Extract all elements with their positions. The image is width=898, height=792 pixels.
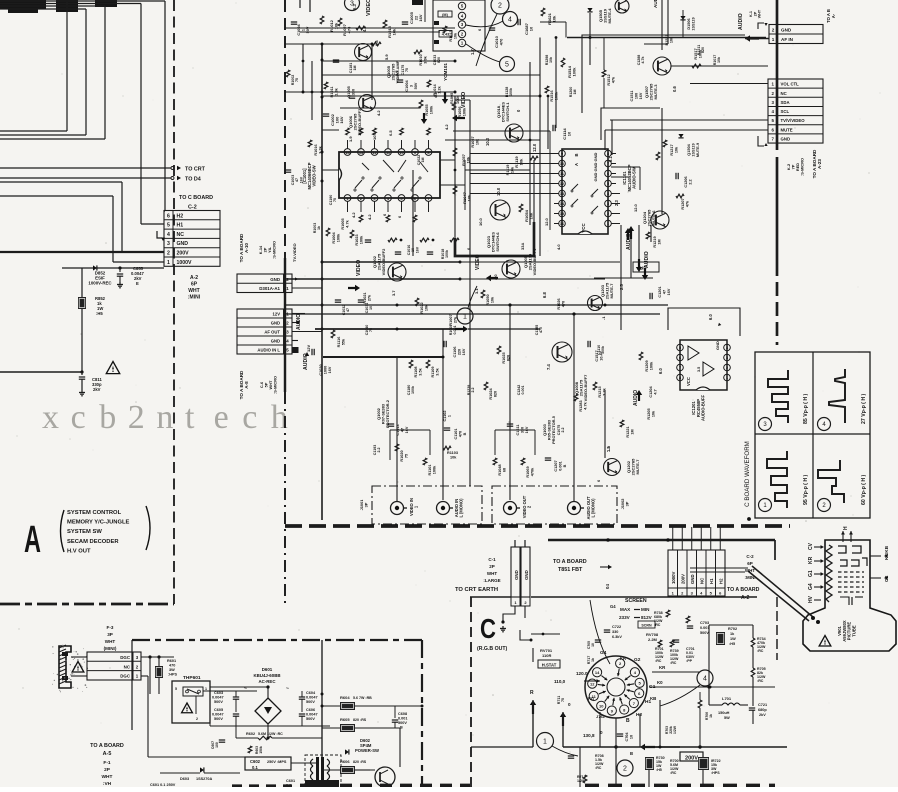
svg-text:A: A bbox=[574, 163, 579, 166]
svg-text:VIDEO: VIDEO bbox=[356, 260, 362, 276]
svg-text:R1014: R1014 bbox=[433, 84, 437, 96]
svg-text:SYSTEM SW: SYSTEM SW bbox=[67, 529, 102, 535]
svg-text:R1283: R1283 bbox=[579, 400, 583, 411]
svg-text:C608: C608 bbox=[398, 712, 407, 716]
svg-text:10k: 10k bbox=[674, 146, 678, 153]
svg-text::RC: :RC bbox=[595, 766, 602, 770]
svg-text:C1102: C1102 bbox=[443, 411, 447, 422]
svg-text:3.5k: 3.5k bbox=[435, 367, 439, 375]
svg-text:1SS270A: 1SS270A bbox=[196, 777, 213, 781]
svg-text:2: 2 bbox=[167, 251, 170, 257]
svg-text:1.9: 1.9 bbox=[348, 136, 353, 142]
svg-text:10: 10 bbox=[599, 704, 604, 709]
svg-text:R1217: R1217 bbox=[670, 144, 674, 155]
svg-text:AF OUT: AF OUT bbox=[264, 330, 280, 335]
svg-text:6P: 6P bbox=[747, 561, 753, 566]
svg-text:0: 0 bbox=[568, 702, 571, 707]
svg-text:1W: 1W bbox=[730, 637, 736, 641]
svg-text:(M): (M) bbox=[442, 13, 448, 17]
svg-text:R1023: R1023 bbox=[355, 234, 359, 245]
svg-text:47: 47 bbox=[346, 308, 350, 312]
svg-text:470: 470 bbox=[458, 431, 462, 437]
svg-text:47: 47 bbox=[662, 290, 666, 294]
svg-text:R606: R606 bbox=[340, 759, 350, 764]
svg-text:4.2: 4.2 bbox=[351, 212, 356, 218]
svg-text:C1106: C1106 bbox=[453, 347, 457, 358]
svg-text:2: 2 bbox=[498, 3, 502, 10]
svg-text:R1215: R1215 bbox=[598, 386, 602, 397]
svg-text:(MINI): (MINI) bbox=[104, 646, 117, 651]
svg-text:C606: C606 bbox=[306, 708, 315, 712]
svg-text:10k: 10k bbox=[490, 296, 494, 303]
svg-text:GND: GND bbox=[271, 339, 280, 344]
svg-text:C-1: C-1 bbox=[488, 557, 496, 562]
svg-text:50V: 50V bbox=[306, 26, 310, 33]
svg-text::RC: :RC bbox=[757, 679, 764, 683]
svg-text:680p: 680p bbox=[758, 708, 767, 712]
svg-text:n: n bbox=[156, 399, 173, 436]
svg-text:5.6M 1/2W :RC: 5.6M 1/2W :RC bbox=[258, 732, 283, 736]
svg-text:H.STAT: H.STAT bbox=[542, 662, 557, 667]
svg-text:AUDIO: AUDIO bbox=[644, 251, 650, 268]
svg-text:POWER-SW: POWER-SW bbox=[355, 748, 379, 753]
svg-text:VCC: VCC bbox=[686, 377, 691, 386]
svg-text:60 Vp-p ( H ): 60 Vp-p ( H ) bbox=[861, 474, 867, 505]
svg-text:2.2: 2.2 bbox=[377, 448, 381, 453]
svg-text:PROTECTOR-5: PROTECTOR-5 bbox=[551, 415, 556, 444]
svg-text:1k: 1k bbox=[709, 714, 713, 718]
svg-text:100k: 100k bbox=[336, 233, 340, 242]
svg-text:5: 5 bbox=[167, 223, 170, 229]
svg-text:6.0: 6.0 bbox=[708, 314, 713, 320]
svg-text:7: 7 bbox=[427, 196, 429, 201]
svg-text:470: 470 bbox=[539, 327, 543, 333]
svg-text:WHT: WHT bbox=[745, 568, 755, 573]
svg-text:R1004: R1004 bbox=[332, 232, 336, 244]
svg-text:KR: KR bbox=[620, 656, 626, 661]
svg-text:GND: GND bbox=[593, 152, 598, 161]
svg-text:J761: J761 bbox=[596, 714, 606, 719]
svg-text:C1204: C1204 bbox=[649, 386, 653, 398]
svg-text:~: ~ bbox=[286, 686, 289, 692]
svg-text:GND: GND bbox=[781, 28, 792, 33]
svg-text:10k: 10k bbox=[475, 138, 479, 145]
svg-text:0.0047: 0.0047 bbox=[306, 713, 318, 717]
svg-text:R1048: R1048 bbox=[498, 464, 502, 475]
svg-text:220: 220 bbox=[457, 349, 461, 355]
svg-text:470k: 470k bbox=[530, 467, 534, 476]
svg-text:TO CRT EARTH: TO CRT EARTH bbox=[455, 587, 498, 593]
svg-text:10: 10 bbox=[629, 735, 633, 739]
svg-text:5: 5 bbox=[607, 182, 609, 186]
svg-text:C1206: C1206 bbox=[684, 176, 688, 187]
svg-text:3.5: 3.5 bbox=[394, 70, 399, 76]
svg-text:AUDIO: AUDIO bbox=[296, 314, 302, 330]
svg-text:14: 14 bbox=[595, 670, 600, 675]
svg-text:2kV: 2kV bbox=[93, 387, 101, 392]
svg-text:R1056: R1056 bbox=[458, 106, 462, 117]
svg-text:MUTE-7: MUTE-7 bbox=[635, 459, 640, 475]
svg-text:6: 6 bbox=[167, 213, 170, 219]
svg-text:150k: 150k bbox=[259, 746, 263, 754]
svg-text:9: 9 bbox=[561, 152, 563, 156]
svg-text:12.0: 12.0 bbox=[544, 217, 549, 226]
svg-text:AUDIO-SW: AUDIO-SW bbox=[632, 167, 637, 189]
svg-text:233V: 233V bbox=[619, 615, 631, 620]
svg-text:0.1: 0.1 bbox=[252, 765, 258, 770]
svg-text:AF IN: AF IN bbox=[781, 37, 794, 42]
svg-text:12.0: 12.0 bbox=[532, 143, 537, 152]
svg-text:470: 470 bbox=[169, 664, 175, 668]
svg-text:820: 820 bbox=[437, 57, 441, 63]
svg-text:MUTE: MUTE bbox=[781, 127, 793, 132]
svg-text:1: 1 bbox=[301, 29, 305, 31]
svg-text:120.0: 120.0 bbox=[576, 671, 588, 676]
svg-text:C-2: C-2 bbox=[746, 554, 754, 559]
svg-text:KR: KR bbox=[659, 665, 666, 670]
svg-text:10k: 10k bbox=[519, 158, 524, 165]
svg-text:THP601: THP601 bbox=[183, 675, 201, 681]
svg-text:GND: GND bbox=[593, 172, 598, 181]
svg-text:1: 1 bbox=[543, 739, 547, 746]
svg-text:YCM101: YCM101 bbox=[443, 63, 448, 81]
svg-text:16V: 16V bbox=[328, 366, 332, 373]
svg-text:130,8: 130,8 bbox=[583, 733, 595, 738]
svg-text:R1116: R1116 bbox=[337, 337, 341, 348]
svg-text:C722: C722 bbox=[612, 625, 621, 629]
svg-text:A-2: A-2 bbox=[741, 595, 749, 601]
svg-text:6.0: 6.0 bbox=[658, 368, 663, 374]
svg-text::HPS: :HPS bbox=[711, 771, 720, 775]
svg-text:0.5: 0.5 bbox=[388, 130, 393, 136]
svg-text:WHT: WHT bbox=[105, 639, 116, 644]
svg-text:VIDEO: VIDEO bbox=[366, 0, 372, 16]
svg-text:E: E bbox=[136, 281, 139, 286]
svg-text:2: 2 bbox=[128, 399, 145, 436]
svg-text:2.2: 2.2 bbox=[688, 179, 692, 184]
svg-text::VH: :VH bbox=[103, 781, 112, 787]
svg-text:3P: 3P bbox=[107, 632, 113, 637]
svg-text:R1024: R1024 bbox=[489, 388, 493, 400]
svg-text:TO D4: TO D4 bbox=[185, 177, 201, 183]
svg-text:12: 12 bbox=[560, 182, 564, 186]
svg-text:7.4: 7.4 bbox=[546, 364, 551, 370]
svg-text:SCRN: SCRN bbox=[641, 624, 652, 628]
svg-text:27k: 27k bbox=[453, 316, 457, 323]
svg-text:150uH: 150uH bbox=[718, 711, 730, 715]
svg-text:H.V OUT: H.V OUT bbox=[67, 548, 91, 554]
svg-text:10: 10 bbox=[529, 26, 534, 31]
svg-text:0.001: 0.001 bbox=[700, 626, 710, 630]
svg-text:1.5: 1.5 bbox=[606, 446, 611, 452]
svg-text:12V: 12V bbox=[306, 345, 311, 352]
svg-text:H1: H1 bbox=[177, 223, 184, 229]
svg-text:WHT: WHT bbox=[758, 9, 762, 18]
svg-text:MUTE-3: MUTE-3 bbox=[653, 84, 658, 100]
svg-text:WHT: WHT bbox=[102, 774, 113, 780]
svg-text:GND: GND bbox=[690, 574, 695, 584]
svg-text:SYSTEM CONTROL: SYSTEM CONTROL bbox=[67, 510, 122, 516]
svg-text:2P: 2P bbox=[489, 564, 495, 569]
svg-text:C604: C604 bbox=[306, 691, 316, 695]
svg-text:5: 5 bbox=[505, 62, 509, 69]
svg-text:R1209: R1209 bbox=[645, 360, 649, 371]
svg-text:A-8: A-8 bbox=[244, 381, 249, 389]
svg-text:3.5: 3.5 bbox=[697, 367, 701, 372]
svg-text:GND: GND bbox=[514, 570, 519, 580]
svg-text:R1013: R1013 bbox=[449, 30, 453, 41]
svg-text:R1022: R1022 bbox=[420, 302, 424, 313]
svg-text:11: 11 bbox=[560, 172, 564, 176]
svg-text::S-MICRO: :S-MICRO bbox=[800, 158, 805, 176]
svg-text:NC: NC bbox=[781, 91, 787, 96]
svg-text:D603: D603 bbox=[180, 777, 189, 781]
svg-text:GND: GND bbox=[715, 341, 720, 350]
svg-text:t: t bbox=[185, 399, 195, 436]
svg-text:16V: 16V bbox=[299, 176, 303, 183]
svg-text:(R.G.B OUT): (R.G.B OUT) bbox=[477, 646, 508, 652]
svg-text:AUDIO IN L: AUDIO IN L bbox=[257, 348, 280, 353]
svg-text:0.6: 0.6 bbox=[672, 86, 677, 92]
svg-text:7: 7 bbox=[607, 162, 609, 166]
svg-text:F-1: F-1 bbox=[103, 760, 111, 766]
svg-text:1: 1 bbox=[447, 415, 451, 417]
svg-text:G4: G4 bbox=[610, 604, 616, 609]
svg-text:100k: 100k bbox=[445, 250, 449, 258]
svg-text:100: 100 bbox=[215, 742, 219, 748]
svg-text:3: 3 bbox=[167, 241, 170, 247]
svg-text:G2: G2 bbox=[634, 657, 641, 663]
svg-text:1: 1 bbox=[463, 314, 467, 321]
svg-text:75: 75 bbox=[561, 698, 565, 702]
svg-text:2: 2 bbox=[772, 28, 775, 33]
svg-text:0.001: 0.001 bbox=[558, 461, 562, 471]
svg-text:H2: H2 bbox=[177, 213, 184, 219]
svg-text:TO A BOARD: TO A BOARD bbox=[90, 743, 124, 749]
svg-text:75: 75 bbox=[295, 78, 299, 82]
svg-text:500V: 500V bbox=[700, 631, 709, 635]
svg-text:7: 7 bbox=[679, 366, 681, 370]
svg-text:B: B bbox=[630, 751, 633, 756]
svg-text:R602: R602 bbox=[246, 732, 255, 736]
svg-text:10k: 10k bbox=[467, 194, 472, 201]
svg-text:4.7k: 4.7k bbox=[345, 219, 349, 227]
svg-text:1/2W: 1/2W bbox=[673, 725, 677, 734]
svg-text:TO C BOARD: TO C BOARD bbox=[179, 195, 213, 201]
svg-text:2.5: 2.5 bbox=[619, 284, 624, 290]
svg-text:10: 10 bbox=[591, 643, 595, 647]
svg-text:110R: 110R bbox=[542, 653, 551, 658]
svg-text:10: 10 bbox=[567, 131, 572, 136]
svg-text:10k: 10k bbox=[453, 32, 457, 39]
svg-text:R1512: R1512 bbox=[607, 74, 611, 85]
svg-text:100: 100 bbox=[634, 93, 638, 99]
svg-text:10k: 10k bbox=[510, 166, 514, 173]
svg-text:95 Vp-p ( H ): 95 Vp-p ( H ) bbox=[803, 474, 809, 505]
svg-text:10k: 10k bbox=[424, 304, 428, 311]
svg-text:R1517: R1517 bbox=[694, 48, 698, 59]
svg-text:GND: GND bbox=[271, 321, 280, 326]
svg-text:MAX: MAX bbox=[620, 607, 631, 612]
svg-text:AUDIO: AUDIO bbox=[738, 13, 744, 30]
svg-text:50V: 50V bbox=[414, 82, 418, 89]
svg-text:c: c bbox=[242, 399, 257, 436]
svg-text:3.9k: 3.9k bbox=[423, 55, 427, 63]
svg-text:R605: R605 bbox=[340, 717, 350, 722]
svg-text:5: 5 bbox=[679, 346, 681, 350]
svg-text::H5: :H5 bbox=[729, 642, 735, 646]
svg-text:330: 330 bbox=[351, 89, 355, 95]
svg-text:R1016: R1016 bbox=[314, 144, 318, 155]
svg-text:75: 75 bbox=[405, 68, 409, 72]
svg-text:1000V: 1000V bbox=[177, 260, 193, 266]
svg-text:C BOARD WAVEFORM: C BOARD WAVEFORM bbox=[744, 441, 751, 507]
svg-text:R1050: R1050 bbox=[486, 294, 490, 305]
svg-text:R1108: R1108 bbox=[414, 367, 418, 378]
svg-text:B: B bbox=[574, 153, 579, 156]
svg-text:Q1504: Q1504 bbox=[687, 143, 691, 155]
svg-text:6P: 6P bbox=[191, 282, 198, 288]
svg-text:16V: 16V bbox=[462, 348, 466, 355]
svg-text:13: 13 bbox=[560, 192, 564, 196]
svg-text:A: A bbox=[24, 519, 41, 561]
svg-text:C703: C703 bbox=[700, 621, 709, 625]
svg-text:GND: GND bbox=[270, 277, 280, 282]
svg-text:R1119: R1119 bbox=[506, 165, 510, 176]
svg-text:10.0: 10.0 bbox=[496, 187, 501, 196]
svg-text:x: x bbox=[42, 399, 59, 436]
svg-text:G4: G4 bbox=[808, 583, 814, 590]
svg-text:1: 1 bbox=[726, 376, 728, 380]
svg-text:16V: 16V bbox=[639, 92, 643, 99]
svg-text:2.3: 2.3 bbox=[614, 200, 619, 206]
svg-text:47k: 47k bbox=[685, 200, 689, 207]
svg-text:27k: 27k bbox=[367, 294, 371, 301]
svg-text:100k: 100k bbox=[456, 95, 460, 104]
svg-text::MINI: :MINI bbox=[188, 295, 201, 301]
svg-text:MUTE-9: MUTE-9 bbox=[696, 143, 700, 157]
svg-text:100k: 100k bbox=[601, 346, 605, 354]
svg-text:100k: 100k bbox=[509, 88, 513, 96]
svg-text:VIDEO-BUFF7: VIDEO-BUFF7 bbox=[583, 374, 588, 401]
svg-text:110,0: 110,0 bbox=[554, 679, 566, 684]
svg-text:R1069: R1069 bbox=[526, 466, 530, 477]
svg-text:GND: GND bbox=[593, 162, 598, 171]
svg-text:MUTE-4: MUTE-4 bbox=[607, 8, 612, 24]
svg-text:c: c bbox=[71, 399, 86, 436]
svg-text:1M: 1M bbox=[657, 239, 661, 244]
svg-text:0.0047: 0.0047 bbox=[212, 713, 224, 717]
svg-text:4: 4 bbox=[508, 17, 512, 24]
svg-text:5.6 7W :RB: 5.6 7W :RB bbox=[353, 696, 372, 700]
svg-text::RC: :RC bbox=[670, 661, 677, 665]
svg-text:T851 FBT: T851 FBT bbox=[558, 567, 583, 573]
svg-text:TO A BOARD: TO A BOARD bbox=[553, 559, 587, 565]
svg-text:16V: 16V bbox=[667, 288, 671, 295]
svg-text:10k: 10k bbox=[717, 57, 721, 63]
svg-text:10.0: 10.0 bbox=[478, 217, 483, 226]
svg-text:NC: NC bbox=[699, 578, 704, 584]
svg-text:R601: R601 bbox=[167, 659, 176, 663]
svg-text:100k: 100k bbox=[432, 465, 436, 474]
svg-text::RC: :RC bbox=[670, 771, 677, 775]
svg-text:TV-VIDEO: TV-VIDEO bbox=[292, 243, 297, 262]
svg-text:812V: 812V bbox=[641, 615, 653, 620]
svg-text:K0: K0 bbox=[657, 680, 663, 685]
svg-text:4: 4 bbox=[703, 676, 707, 683]
svg-text:820 :RS: 820 :RS bbox=[353, 718, 367, 722]
svg-text:e: e bbox=[214, 399, 229, 436]
svg-text:KB: KB bbox=[650, 696, 656, 701]
svg-text:C602: C602 bbox=[250, 759, 261, 764]
svg-text:B: B bbox=[563, 464, 567, 467]
svg-text:R1026: R1026 bbox=[557, 298, 561, 309]
svg-text:100k: 100k bbox=[462, 107, 466, 116]
svg-text:VIDEO-SW: VIDEO-SW bbox=[312, 165, 317, 186]
svg-text:04: 04 bbox=[605, 584, 610, 589]
svg-text:R1010: R1010 bbox=[419, 54, 423, 65]
svg-text:3: 3 bbox=[607, 202, 609, 206]
svg-text:2P: 2P bbox=[104, 767, 111, 773]
svg-text:R1516: R1516 bbox=[550, 90, 554, 101]
svg-text:KG: KG bbox=[588, 696, 594, 701]
svg-text:100k: 100k bbox=[649, 361, 653, 370]
svg-text:1SS119: 1SS119 bbox=[691, 143, 695, 156]
svg-text:C: C bbox=[480, 613, 496, 644]
svg-text:1.2k: 1.2k bbox=[437, 85, 441, 93]
svg-text:12V: 12V bbox=[273, 312, 281, 317]
svg-text:R1207: R1207 bbox=[681, 198, 685, 209]
svg-text:C704: C704 bbox=[625, 732, 629, 742]
svg-text:G1: G1 bbox=[808, 570, 814, 577]
svg-text:1: 1 bbox=[607, 222, 609, 226]
svg-text:H: H bbox=[843, 526, 849, 530]
svg-text:DGC: DGC bbox=[120, 655, 131, 660]
svg-text:MIN: MIN bbox=[641, 607, 650, 612]
svg-text:2.2: 2.2 bbox=[471, 388, 475, 393]
svg-text:C1030: C1030 bbox=[319, 364, 323, 375]
svg-text:4.2: 4.2 bbox=[367, 214, 372, 220]
svg-text:C721: C721 bbox=[758, 703, 767, 707]
svg-text:500V: 500V bbox=[306, 700, 315, 704]
svg-text:16V: 16V bbox=[418, 14, 423, 21]
svg-text:3: 3 bbox=[409, 85, 413, 87]
svg-text:100k: 100k bbox=[572, 67, 577, 77]
svg-text:12.0: 12.0 bbox=[633, 203, 638, 212]
svg-text:WHT: WHT bbox=[188, 288, 199, 294]
svg-text:C601: C601 bbox=[286, 779, 295, 783]
svg-text:L (MONO): L (MONO) bbox=[591, 498, 596, 518]
svg-text:R1055: R1055 bbox=[425, 104, 429, 115]
svg-text:5: 5 bbox=[175, 687, 177, 691]
svg-text:R1020: R1020 bbox=[400, 450, 404, 461]
svg-text:10k: 10k bbox=[552, 15, 557, 22]
svg-text:B: B bbox=[626, 718, 630, 724]
svg-text:AUDIO-BUFF: AUDIO-BUFF bbox=[701, 395, 706, 421]
svg-text:4: 4 bbox=[167, 232, 170, 238]
svg-text:C605: C605 bbox=[214, 708, 223, 712]
svg-text:CV: CV bbox=[808, 542, 814, 550]
svg-text:0.0047: 0.0047 bbox=[306, 696, 318, 700]
svg-text:6: 6 bbox=[679, 356, 681, 360]
svg-text:3P: 3P bbox=[364, 502, 369, 507]
svg-text::LARGE: :LARGE bbox=[483, 578, 500, 583]
svg-text:16V: 16V bbox=[415, 246, 419, 253]
svg-text:H2: H2 bbox=[636, 712, 642, 718]
svg-text:55k: 55k bbox=[341, 338, 345, 345]
svg-text:4.7: 4.7 bbox=[653, 389, 657, 394]
svg-text:470: 470 bbox=[499, 38, 504, 45]
